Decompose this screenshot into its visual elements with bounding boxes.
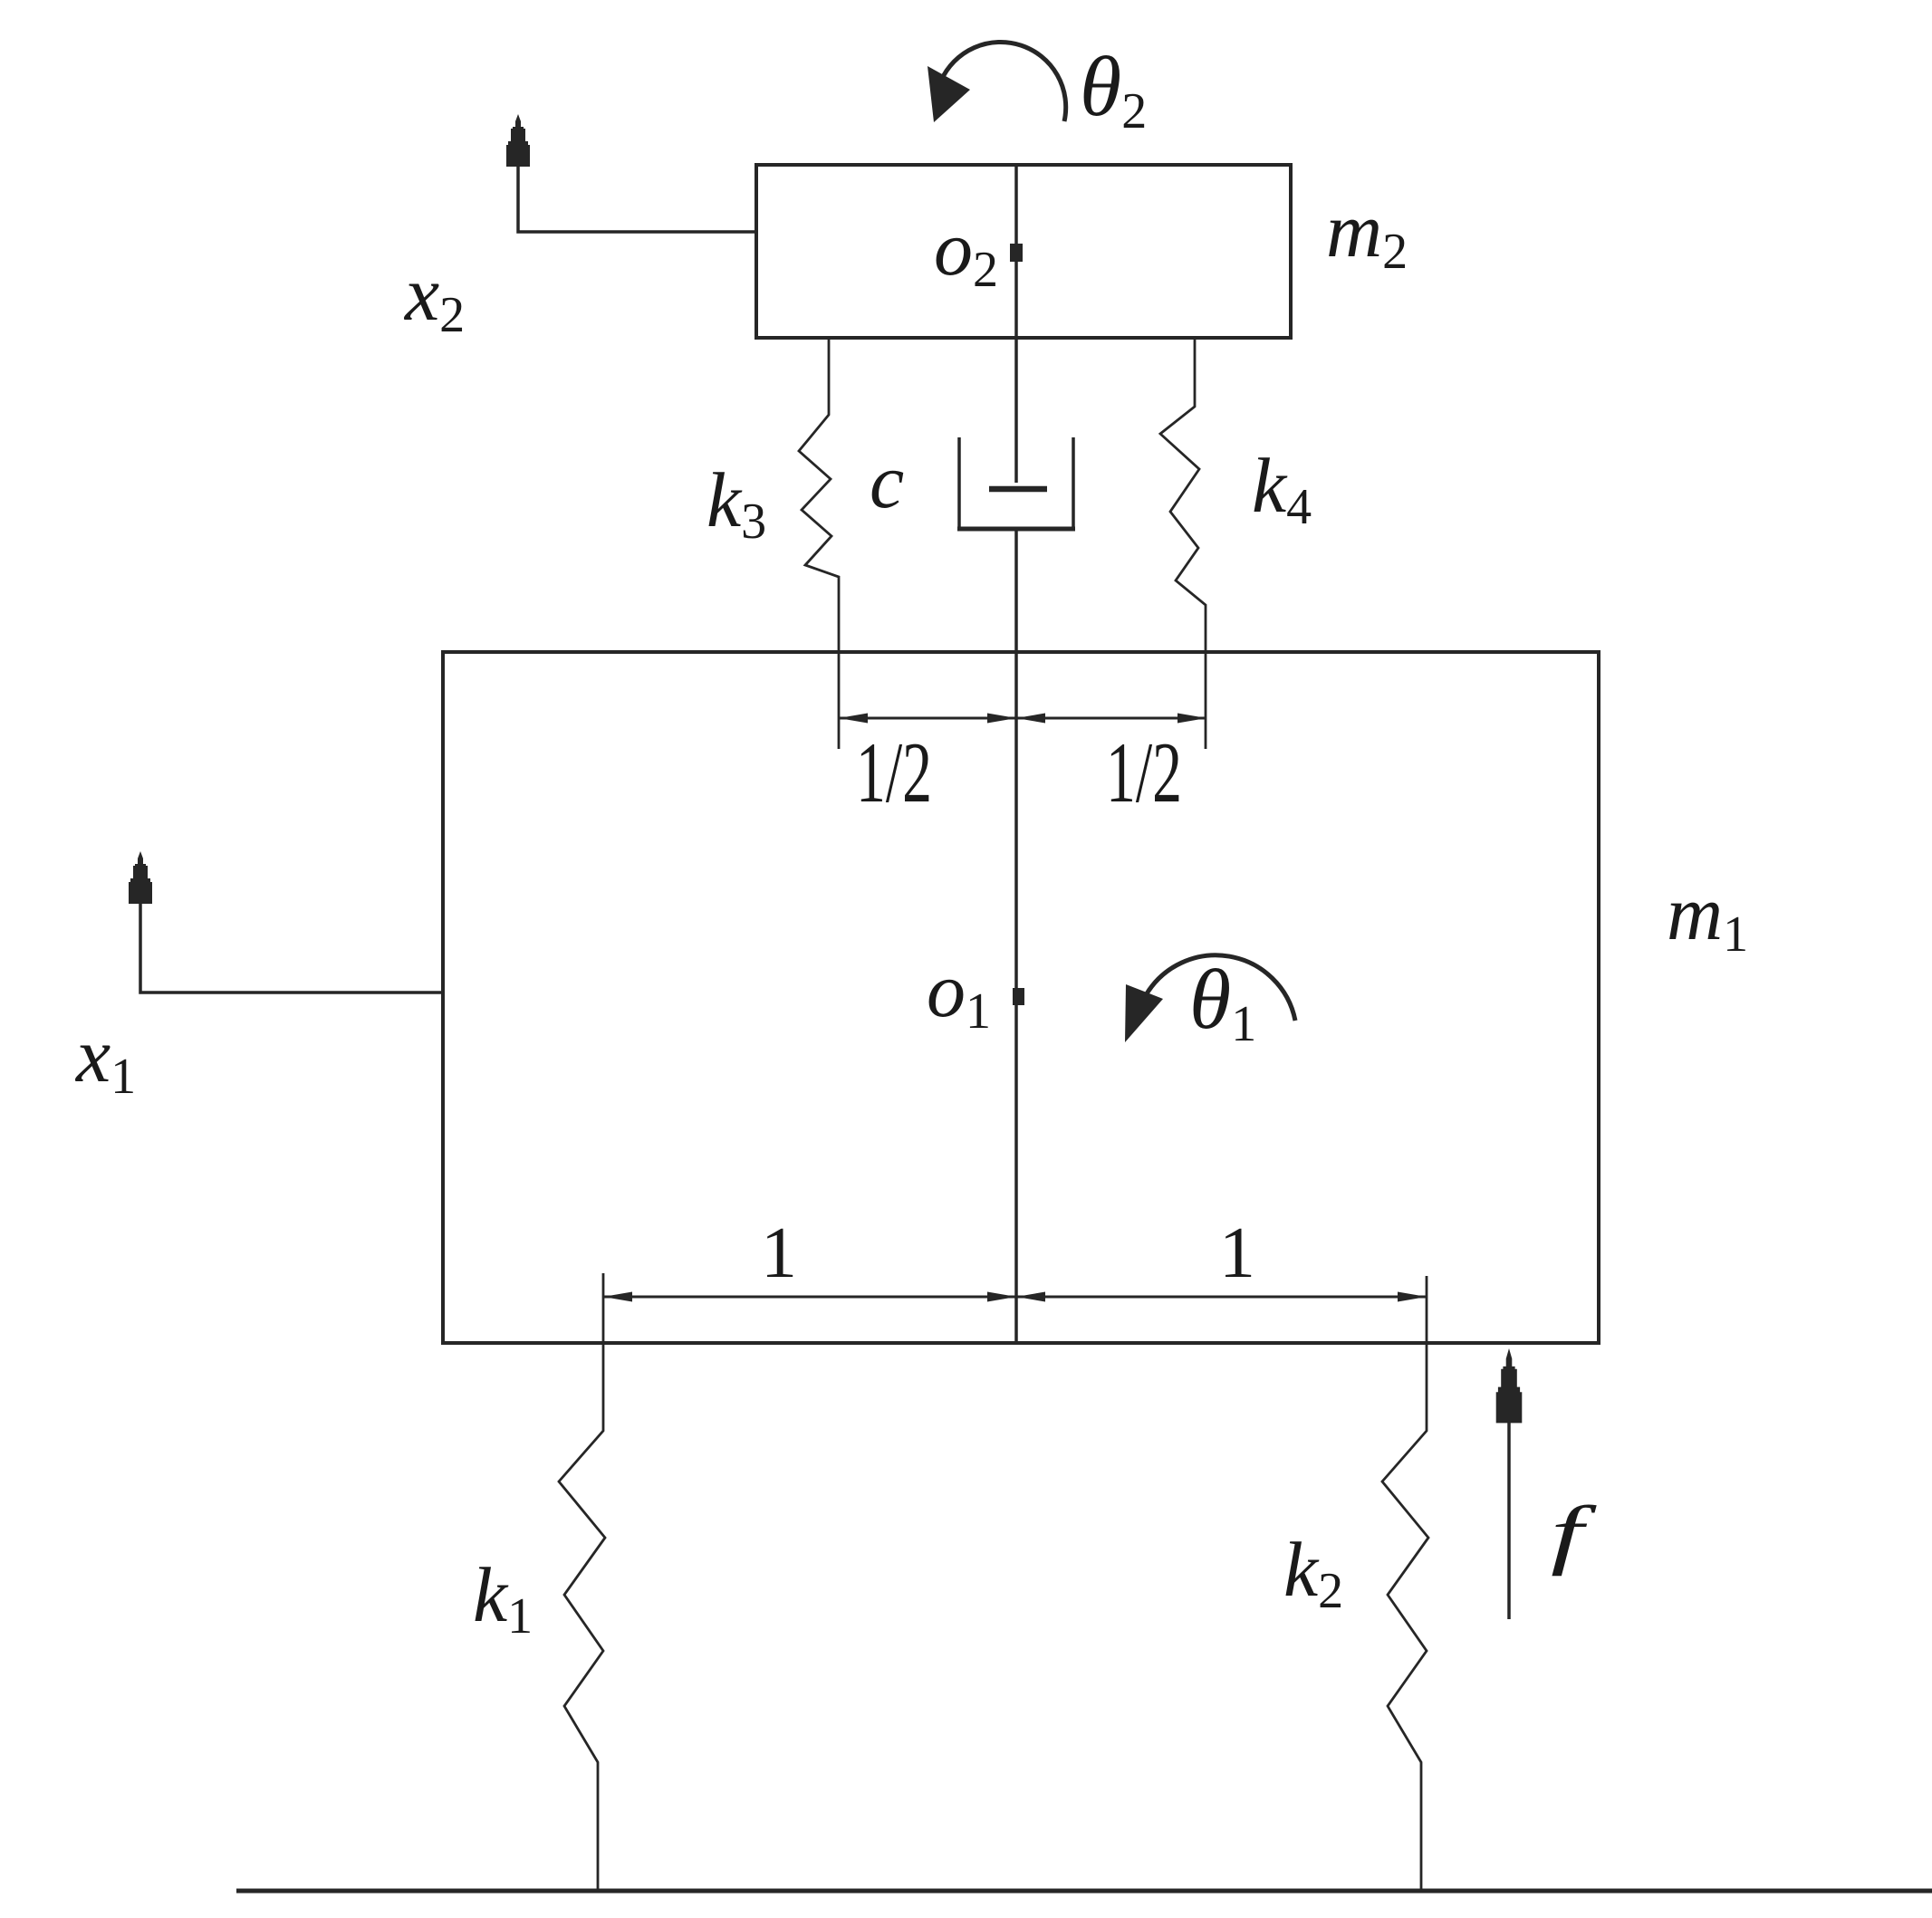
theta2 arrowhead bbox=[928, 66, 970, 122]
damper c cylinder bottom bbox=[957, 527, 1075, 532]
dim 1 arrowheads bbox=[603, 1292, 632, 1302]
label f bbox=[1551, 1490, 1598, 1577]
damper c cylinder left wall bbox=[957, 437, 961, 531]
dimension line 1 left bbox=[603, 1296, 1016, 1299]
damper c rod bbox=[1014, 338, 1018, 483]
svg-text:1/2: 1/2 bbox=[1106, 724, 1182, 820]
theta2 arc bbox=[941, 42, 1066, 121]
theta1 arrowhead bbox=[1125, 984, 1163, 1042]
dimension line 1/2 right bbox=[1016, 717, 1206, 720]
damper c piston plate bbox=[989, 486, 1047, 493]
force f arrowhead bbox=[1496, 1348, 1523, 1423]
spring k3 bbox=[799, 338, 839, 749]
mass m1 box bbox=[443, 652, 1599, 1343]
x2 arrowhead bbox=[506, 114, 530, 167]
x2 wire bbox=[518, 167, 756, 232]
force f line bbox=[1507, 1423, 1511, 1619]
x1 wire bbox=[140, 904, 443, 993]
svg-text:1/2: 1/2 bbox=[856, 724, 932, 820]
theta1 arc bbox=[1146, 955, 1295, 1021]
dim 1/2 arrowheads bbox=[839, 714, 868, 724]
spring k2 bbox=[1382, 1276, 1428, 1891]
svg-text:c: c bbox=[870, 437, 904, 524]
mass m2 box bbox=[756, 165, 1291, 338]
damper c lower stem bbox=[1014, 530, 1018, 652]
dimension line 1/2 left bbox=[839, 717, 1016, 720]
center line through m1 bbox=[1014, 652, 1018, 1343]
spring k4 bbox=[1160, 338, 1206, 749]
svg-text:1: 1 bbox=[761, 1213, 797, 1293]
ground line bbox=[236, 1889, 1932, 1894]
damper c cylinder right wall bbox=[1072, 437, 1075, 531]
o2 marker dot bbox=[1010, 244, 1023, 262]
center line through m2 bbox=[1014, 165, 1018, 338]
o1 marker dot bbox=[1013, 988, 1024, 1005]
spring k1 bbox=[559, 1273, 605, 1891]
x1 arrowhead bbox=[129, 851, 152, 904]
dimension line 1 right bbox=[1016, 1296, 1427, 1299]
svg-text:1: 1 bbox=[1219, 1213, 1255, 1293]
